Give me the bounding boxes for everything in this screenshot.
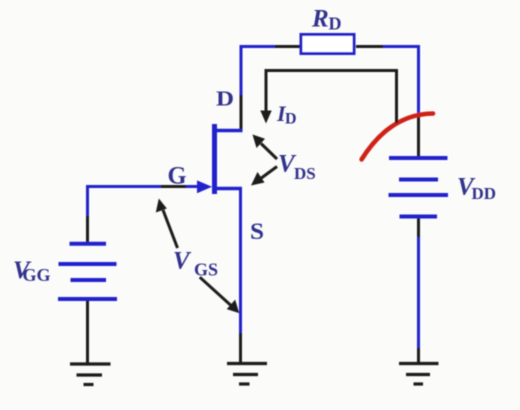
wire: right vertical down to battery VDD <box>417 45 420 114</box>
svg-text:GG: GG <box>23 265 51 285</box>
wire: gate horizontal from VGG <box>87 185 161 188</box>
svg-text:V: V <box>173 248 192 275</box>
wire: source vertical down to ground <box>239 189 242 334</box>
svg-text:GS: GS <box>194 260 218 280</box>
resistor R_D (box) <box>301 35 354 54</box>
transistor Q1: gate arrowhead <box>197 180 212 193</box>
svg-text:DD: DD <box>472 184 497 203</box>
wire: resistor right to top-right corner <box>356 45 383 48</box>
battery VDD plate 3 (long) <box>389 193 449 197</box>
red arc annotation over VDD wire <box>362 114 433 160</box>
transistor Q1: drain lead <box>213 129 243 132</box>
ground (middle, under source) <box>227 364 267 385</box>
wire: drain vertical (corner down to drain lead) <box>240 45 243 95</box>
I_D arrowhead <box>260 111 271 124</box>
svg-text:R: R <box>311 6 329 33</box>
svg-text:D: D <box>329 14 342 34</box>
battery VDD plate 1 (long) <box>389 156 448 160</box>
svg-text:D: D <box>285 111 297 128</box>
ground (left, under VGG) <box>70 364 111 385</box>
ground (right, under VDD) <box>399 364 439 385</box>
arrow V_DS lower (to source) <box>260 167 277 180</box>
battery VDD plate 4 (short) <box>400 215 438 219</box>
svg-text:D: D <box>216 87 234 111</box>
wire: below VGG battery to ground <box>86 301 89 363</box>
transistor Q1: source lead <box>213 187 242 190</box>
I_D annotation path (current loop, black) <box>266 71 397 124</box>
arrow V_DS upper (to drain) <box>261 144 277 160</box>
arrow V_GS lower (to source wire) <box>200 277 231 305</box>
wire: below VDD battery to ground <box>417 219 420 238</box>
svg-text:DS: DS <box>294 164 316 183</box>
battery VDD plate 2 (short) <box>399 178 438 182</box>
wire: VGG top vertical (gate corner down to battery) <box>86 185 89 216</box>
transistor Q1: channel bar <box>212 124 217 194</box>
svg-text:G: G <box>168 163 187 190</box>
battery VGG plate 1 (medium) <box>70 242 107 246</box>
svg-text:S: S <box>250 219 264 244</box>
arrow V_GS upper (to gate wire) <box>163 210 178 248</box>
battery VGG plate 4 (long) <box>58 297 117 301</box>
battery VGG plate 3 (short) <box>71 278 107 282</box>
battery VGG plate 2 (long) <box>59 262 117 266</box>
wire: top-left horizontal (drain corner to resistor) <box>241 45 275 48</box>
